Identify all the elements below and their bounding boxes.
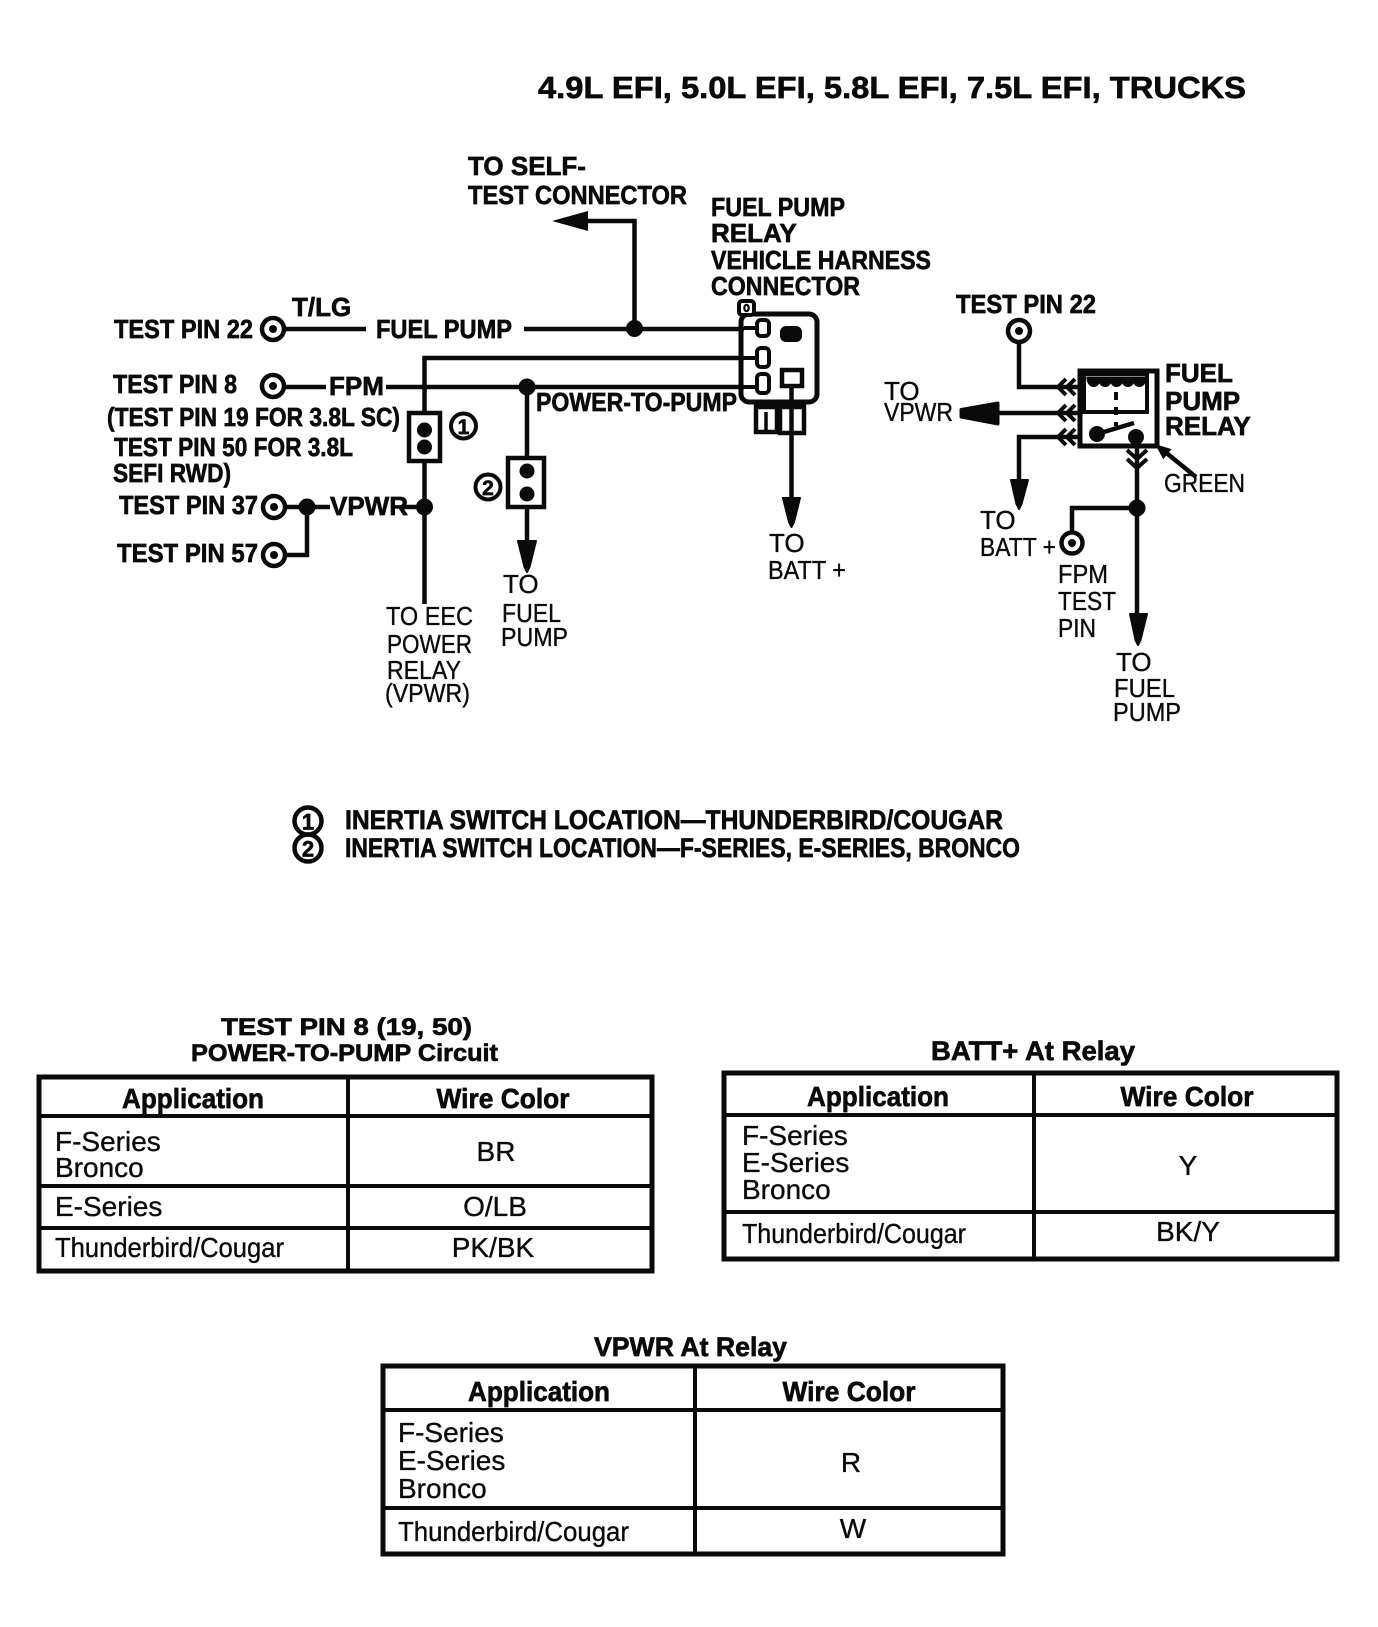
svg-text:FPM: FPM bbox=[1058, 559, 1108, 589]
connector keyway blob bbox=[780, 326, 802, 342]
relay armature dashed link bbox=[1114, 392, 1118, 426]
svg-text:RELAY: RELAY bbox=[711, 218, 797, 248]
svg-text:TEST CONNECTOR: TEST CONNECTOR bbox=[468, 180, 687, 210]
junction dot vpwr node bbox=[416, 499, 433, 516]
svg-text:Application: Application bbox=[468, 1376, 610, 1407]
relay coil box bbox=[1084, 374, 1147, 412]
svg-text:FPM: FPM bbox=[329, 371, 384, 401]
arrow to self-test connector bbox=[552, 211, 588, 231]
svg-text:F-Series: F-Series bbox=[398, 1417, 504, 1448]
test pin 8 terminal bbox=[262, 375, 284, 397]
label TO FUEL PUMP (right) bbox=[1113, 647, 1181, 727]
arrow to batt+ (right) bbox=[1011, 480, 1028, 509]
relay switch contacts bbox=[1089, 423, 1144, 445]
wire test pin 22 stub bbox=[284, 327, 366, 332]
junction dot node fuel-pump/self-test bbox=[626, 320, 643, 337]
svg-text:Application: Application bbox=[807, 1081, 949, 1112]
arrow to fuel pump (left) bbox=[518, 541, 536, 572]
svg-text:FUEL: FUEL bbox=[1165, 358, 1233, 388]
connector J1 body bbox=[739, 301, 817, 402]
svg-text:FUEL PUMP: FUEL PUMP bbox=[376, 314, 512, 344]
table 3 header row bbox=[468, 1376, 916, 1407]
svg-text:INERTIA SWITCH LOCATION—THUNDE: INERTIA SWITCH LOCATION—THUNDERBIRD/COUG… bbox=[345, 805, 1003, 835]
svg-text:GREEN: GREEN bbox=[1164, 468, 1245, 498]
wire FUEL PUMP to connector pin 1 bbox=[524, 327, 744, 332]
svg-text:TO: TO bbox=[769, 528, 805, 558]
inertia switch 2 contacts bbox=[520, 464, 535, 502]
table 3 row Thunderbird/Cougar W bbox=[398, 1513, 867, 1547]
connector chevrons relay pin 2 bbox=[1058, 405, 1075, 421]
relay coil windings bbox=[1088, 378, 1145, 386]
table 1 row Thunderbird/Cougar PK/BK bbox=[55, 1232, 535, 1263]
svg-text:Wire Color: Wire Color bbox=[783, 1376, 916, 1407]
svg-text:Thunderbird/Cougar: Thunderbird/Cougar bbox=[398, 1516, 629, 1547]
junction dot fpm tie (right) bbox=[1129, 500, 1146, 517]
wire relay to vpwr arrow bbox=[993, 411, 1081, 416]
connector pin 3 cavity bbox=[744, 374, 769, 393]
wire FPM to connector pin 3 bbox=[386, 385, 744, 390]
table 2 row Thunderbird/Cougar BK/Y bbox=[742, 1216, 1220, 1249]
table 2 batt+ grid bbox=[724, 1073, 1337, 1259]
label TO FUEL PUMP (left) bbox=[501, 569, 568, 652]
callout legend 2 bbox=[295, 835, 322, 862]
wire test pin 8 stub bbox=[284, 385, 326, 390]
table 1 row F-Series/Bronco BR bbox=[55, 1126, 515, 1183]
svg-text:BATT+ At Relay: BATT+ At Relay bbox=[931, 1036, 1135, 1066]
svg-text:E-Series: E-Series bbox=[55, 1191, 162, 1222]
svg-text:BR: BR bbox=[477, 1136, 516, 1167]
svg-text:Bronco: Bronco bbox=[742, 1174, 831, 1205]
svg-text:TEST PIN 57: TEST PIN 57 bbox=[117, 538, 258, 568]
wire connector pin 2 to inertia switch 1 bbox=[425, 358, 745, 413]
label TO BATT+ (left) bbox=[768, 528, 846, 585]
svg-text:O/LB: O/LB bbox=[463, 1191, 527, 1222]
svg-text:PIN: PIN bbox=[1058, 613, 1096, 643]
svg-text:(TEST PIN 19 FOR 3.8L SC): (TEST PIN 19 FOR 3.8L SC) bbox=[107, 402, 400, 432]
wire connector to batt+ bbox=[789, 386, 794, 500]
svg-text:TO EEC: TO EEC bbox=[386, 601, 473, 631]
arrow to fuel pump (right) bbox=[1130, 614, 1147, 645]
wire relay switch to fuel pump (right) bbox=[1135, 445, 1140, 616]
wire relay to batt+ arrow (right) bbox=[1019, 437, 1081, 482]
wire test pin 37 to vpwr bbox=[285, 505, 330, 510]
svg-text:4.9L EFI, 5.0L EFI, 5.8L EFI,: 4.9L EFI, 5.0L EFI, 5.8L EFI, 7.5L EFI, … bbox=[538, 70, 1246, 105]
junction dot test pin 37/57 tie bbox=[299, 499, 316, 516]
callout legend 1 bbox=[295, 808, 322, 835]
svg-text:Bronco: Bronco bbox=[398, 1473, 487, 1504]
label FUEL PUMP RELAY VEHICLE HARNESS CONNECTOR bbox=[711, 192, 931, 301]
inertia switch 1 body bbox=[409, 413, 440, 461]
label TO EEC POWER RELAY (VPWR) bbox=[385, 601, 473, 708]
svg-text:VPWR At Relay: VPWR At Relay bbox=[594, 1332, 787, 1362]
svg-text:VPWR: VPWR bbox=[884, 397, 953, 427]
svg-text:R: R bbox=[841, 1447, 861, 1478]
inertia switch 1 contacts bbox=[417, 423, 432, 455]
wire power-to-pump junction to inertia switch 2 bbox=[525, 387, 530, 458]
svg-text:T/LG: T/LG bbox=[292, 292, 351, 322]
svg-text:BATT +: BATT + bbox=[768, 555, 846, 585]
svg-text:TO: TO bbox=[503, 569, 539, 599]
test pin 22 terminal bbox=[262, 318, 284, 340]
wire test pin 57 up to test pin 37 node bbox=[285, 507, 307, 555]
table 3 row F/E/Bronco R bbox=[398, 1417, 861, 1504]
test pin 57 terminal bbox=[263, 544, 285, 566]
junction dot node power-to-pump bbox=[519, 379, 536, 396]
inertia switch 2 body bbox=[508, 458, 544, 507]
label FPM TEST PIN bbox=[1058, 559, 1116, 643]
svg-text:Bronco: Bronco bbox=[55, 1152, 144, 1183]
svg-text:BK/Y: BK/Y bbox=[1156, 1216, 1220, 1247]
svg-text:INERTIA SWITCH LOCATION—F-SERI: INERTIA SWITCH LOCATION—F-SERIES, E-SERI… bbox=[345, 833, 1020, 863]
wire self-test to fuel-pump net bbox=[582, 221, 635, 328]
test pin 37 terminal bbox=[263, 496, 285, 518]
svg-text:1: 1 bbox=[302, 810, 314, 835]
svg-text:TEST: TEST bbox=[1058, 586, 1116, 616]
connector chevrons relay pin 3 bbox=[1058, 429, 1075, 445]
table 1 row E-Series O/LB bbox=[55, 1191, 527, 1222]
table 2 row F/E/Bronco Y bbox=[742, 1120, 1198, 1205]
arrow to batt+ (left) bbox=[783, 498, 800, 527]
svg-text:Application: Application bbox=[122, 1083, 264, 1114]
svg-text:PK/BK: PK/BK bbox=[452, 1232, 535, 1263]
svg-text:2: 2 bbox=[302, 837, 314, 862]
svg-text:CONNECTOR: CONNECTOR bbox=[711, 271, 860, 301]
table 1 title bbox=[191, 1014, 498, 1067]
svg-text:E-Series: E-Series bbox=[398, 1445, 505, 1476]
fuel pump relay body bbox=[1080, 371, 1157, 446]
svg-text:SEFI RWD): SEFI RWD) bbox=[113, 458, 231, 488]
table 1 power-to-pump circuit grid bbox=[39, 1077, 652, 1271]
svg-text:1: 1 bbox=[458, 416, 470, 439]
svg-text:Thunderbird/Cougar: Thunderbird/Cougar bbox=[742, 1218, 966, 1249]
fpm test pin terminal bbox=[1062, 533, 1083, 554]
svg-text:2: 2 bbox=[482, 477, 494, 500]
wire inertia switch 2 to fuel pump arrow bbox=[525, 507, 530, 545]
svg-text:TO SELF-: TO SELF- bbox=[468, 151, 586, 181]
label TO SELF-TEST CONNECTOR bbox=[468, 151, 687, 210]
green wire pointer arrow bbox=[1155, 444, 1196, 477]
label TO VPWR (right) bbox=[884, 376, 953, 427]
svg-text:BATT +: BATT + bbox=[980, 532, 1056, 562]
svg-text:TEST PIN 8: TEST PIN 8 bbox=[113, 369, 237, 399]
svg-text:RELAY: RELAY bbox=[1165, 411, 1251, 441]
wire fpm test pin branch bbox=[1072, 508, 1137, 533]
wire inertia switch 1 to vpwr node bbox=[422, 461, 427, 604]
svg-text:PUMP: PUMP bbox=[1113, 697, 1181, 727]
svg-text:POWER-TO-PUMP Circuit: POWER-TO-PUMP Circuit bbox=[191, 1040, 498, 1067]
svg-text:TEST PIN 22: TEST PIN 22 bbox=[956, 289, 1096, 319]
connector pin 2 cavity bbox=[744, 348, 769, 367]
label FUEL PUMP RELAY (right) bbox=[1165, 358, 1251, 441]
svg-text:Y: Y bbox=[1179, 1150, 1198, 1181]
svg-text:POWER-TO-PUMP: POWER-TO-PUMP bbox=[536, 387, 737, 417]
svg-text:TO: TO bbox=[980, 505, 1016, 535]
wire test pin 22 to relay coil bbox=[1019, 342, 1081, 387]
callout 2 circled bbox=[476, 475, 501, 501]
label TO BATT+ (right) bbox=[980, 505, 1056, 562]
connector chevrons relay pin 4 down bbox=[1127, 450, 1147, 468]
svg-text:Thunderbird/Cougar: Thunderbird/Cougar bbox=[55, 1232, 284, 1263]
svg-text:TEST PIN 22: TEST PIN 22 bbox=[114, 314, 253, 344]
svg-text:Wire Color: Wire Color bbox=[1121, 1081, 1254, 1112]
test pin 22 terminal (right) bbox=[1008, 320, 1030, 342]
arrow to vpwr bbox=[961, 403, 998, 424]
wire VPWR to eec riser bbox=[402, 505, 424, 510]
svg-text:VPWR: VPWR bbox=[330, 491, 408, 521]
svg-text:W: W bbox=[840, 1513, 867, 1544]
connector batt pin cavity bbox=[782, 370, 802, 386]
callout 1 circled bbox=[451, 414, 476, 440]
connector pin 1 cavity bbox=[744, 320, 769, 336]
table 3 vpwr grid bbox=[383, 1366, 1003, 1554]
table 1 header row bbox=[122, 1083, 570, 1114]
svg-text:PUMP: PUMP bbox=[501, 622, 568, 652]
svg-text:Wire Color: Wire Color bbox=[437, 1083, 570, 1114]
table 2 header row bbox=[807, 1081, 1254, 1112]
svg-text:TEST PIN 8 (19, 50): TEST PIN 8 (19, 50) bbox=[221, 1014, 472, 1041]
connector chevrons relay pin 1 bbox=[1058, 379, 1075, 395]
connector tail cells bbox=[754, 404, 806, 433]
svg-text:TEST PIN 37: TEST PIN 37 bbox=[119, 490, 258, 520]
svg-text:(VPWR): (VPWR) bbox=[385, 678, 470, 708]
